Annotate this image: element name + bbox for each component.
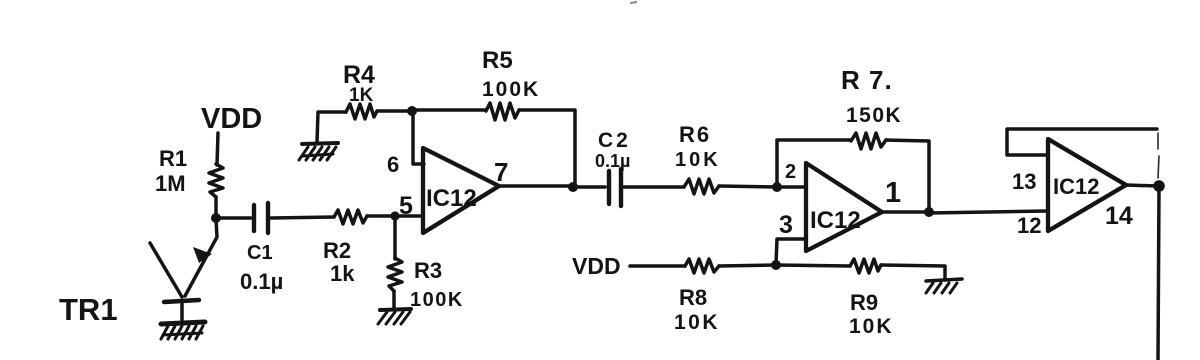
wire U2 output	[882, 210, 929, 214]
node A (R1/C1/TR1 junction)	[211, 213, 221, 223]
resistor R1	[209, 164, 223, 197]
svg-text:100K: 100K	[410, 289, 464, 311]
node E (pin2/R7 junction)	[772, 182, 782, 192]
label R8 value 10K	[674, 285, 720, 334]
wire faint feedback drop	[1158, 133, 1159, 178]
ground (below TR1)	[161, 322, 205, 339]
svg-text:13: 13	[1012, 169, 1036, 194]
pin label 6	[387, 152, 399, 177]
wire node H down to edge	[1158, 188, 1159, 360]
wire TR1 to ground	[180, 302, 184, 323]
pin label 12	[1017, 213, 1041, 238]
label C2 value 0.1u	[595, 129, 631, 171]
pin label 13	[1012, 169, 1036, 194]
resistor R9	[850, 259, 881, 273]
label IC12 (first)	[426, 185, 477, 212]
capacitor C1	[254, 203, 268, 233]
svg-text:R8: R8	[679, 285, 707, 310]
svg-text:VDD: VDD	[572, 253, 621, 279]
wire VDD rail to R8	[630, 264, 685, 268]
label R6 value 10K	[675, 122, 721, 171]
op-amp U2 (IC12 second section)	[806, 163, 882, 251]
label C1 value 0.1u	[240, 242, 283, 294]
resistor R2	[334, 210, 367, 224]
svg-text:R2: R2	[323, 238, 351, 263]
wire op-amp U1 output to node D	[499, 184, 573, 188]
wire R8 to node G	[719, 265, 776, 266]
svg-text:IC12: IC12	[1053, 174, 1099, 199]
svg-text:150K: 150K	[846, 104, 902, 127]
wire node G to R9	[776, 265, 850, 266]
wire R7 to output node F	[886, 140, 929, 211]
wire pin 3 hook to node G	[776, 239, 805, 264]
resistor R8	[685, 259, 719, 273]
label TR1	[59, 292, 118, 327]
node B (pin5/R3 junction)	[390, 211, 399, 220]
label R4 value 1K	[343, 61, 375, 106]
svg-text:R3: R3	[414, 258, 442, 283]
label VDD (left supply)	[201, 103, 262, 135]
pin label 7	[494, 157, 508, 187]
svg-text:6: 6	[387, 152, 399, 177]
wire C1 to R2	[271, 217, 334, 218]
svg-text:1k: 1k	[330, 261, 355, 286]
svg-text:2: 2	[785, 161, 796, 183]
wire pin 13 hook	[1007, 131, 1048, 155]
svg-text:R5: R5	[482, 47, 513, 74]
svg-text:12: 12	[1017, 213, 1041, 238]
node C (R4/R5/pin6 junction)	[407, 106, 417, 116]
label R2 value 1k	[323, 238, 355, 286]
wire R4 to node C	[377, 109, 410, 113]
op-amp U3 (IC12 third section)	[1048, 139, 1126, 231]
svg-text:10K: 10K	[674, 311, 720, 334]
label IC12 (third)	[1053, 174, 1099, 199]
svg-text:14: 14	[1105, 202, 1133, 230]
ground (R4 left)	[299, 143, 338, 160]
wire node E to op-amp pin 2	[777, 185, 806, 189]
capacitor C2	[609, 169, 621, 206]
svg-text:R6: R6	[679, 122, 711, 147]
wire C2 to R6	[624, 185, 684, 189]
label R1 value 1M	[155, 146, 187, 196]
ground (right of R9)	[926, 279, 962, 293]
transistor TR1 collector line with emitter arrow	[185, 219, 217, 296]
transistor TR1 base bar	[164, 300, 199, 302]
svg-text:R 7.: R 7.	[841, 65, 893, 95]
ground (below R3)	[378, 309, 411, 324]
resistor R3	[388, 258, 402, 291]
label R5 value 100K	[482, 47, 540, 101]
wire R2 to op-amp pin 5	[367, 214, 423, 218]
label IC12 (second)	[810, 207, 861, 234]
wire node E up to R7 rail	[775, 141, 779, 186]
svg-text:0.1µ: 0.1µ	[595, 151, 630, 171]
wire R3 to ground	[392, 291, 396, 310]
wire R4 left to ground corner	[317, 112, 346, 143]
wire node A to C1	[216, 216, 251, 220]
pin label 3	[779, 211, 793, 239]
wire node F to op-amp U3 pin 12	[929, 211, 1047, 213]
wire VDD stem down to R1	[217, 133, 218, 165]
resistor R6	[684, 179, 719, 194]
svg-text:1: 1	[885, 177, 901, 209]
svg-text:C1: C1	[247, 242, 273, 264]
label VDD (bias supply)	[572, 253, 621, 279]
wire R1 to node A	[214, 197, 218, 219]
resistor R4	[346, 104, 377, 119]
svg-text:0.1µ: 0.1µ	[240, 269, 283, 294]
svg-text:TR1: TR1	[59, 292, 118, 327]
wire node C down to pin 6	[413, 113, 424, 164]
resistor R5	[486, 103, 519, 120]
wire node C to R5	[414, 108, 486, 112]
label R7 value 150K	[841, 65, 902, 127]
pin label 5	[399, 192, 413, 220]
wire R9 to ground corner	[881, 265, 945, 280]
resistor R7	[851, 133, 886, 149]
svg-text:R1: R1	[159, 146, 187, 171]
node H (U3 output junction)	[1153, 180, 1165, 192]
wire rail to R7	[777, 138, 851, 142]
svg-text:10K: 10K	[675, 149, 721, 171]
label R3 value 100K	[410, 258, 464, 311]
wire R5 to output corner	[519, 110, 575, 185]
node F (U2 output junction)	[924, 207, 934, 217]
svg-text:VDD: VDD	[201, 103, 262, 135]
wire R6 to node E	[719, 186, 777, 187]
wire U3 feedback top rail	[1007, 127, 1157, 131]
svg-text:3: 3	[779, 211, 793, 239]
pin label 14	[1105, 202, 1133, 230]
svg-text:10K: 10K	[849, 315, 894, 338]
speck artifact	[630, 2, 637, 3]
label R9 value 10K	[849, 290, 894, 338]
pin label 1	[885, 177, 901, 209]
svg-text:1M: 1M	[155, 171, 186, 196]
node G (R8/R9/pin3 junction)	[771, 260, 781, 270]
wire node D to C2	[573, 185, 605, 189]
svg-text:C2: C2	[598, 129, 631, 152]
pin label 2	[785, 161, 796, 183]
transistor TR1 base lead	[150, 243, 182, 297]
svg-text:IC12: IC12	[426, 185, 477, 212]
node D (output/C2 junction)	[568, 182, 578, 192]
op-amp U1 (IC12 first section)	[423, 148, 499, 233]
svg-text:100K: 100K	[482, 78, 540, 101]
svg-text:7: 7	[494, 157, 508, 187]
svg-text:R9: R9	[850, 290, 878, 315]
wire U3 output to node H	[1126, 185, 1157, 186]
svg-text:IC12: IC12	[810, 207, 861, 234]
wire node B down to R3	[393, 216, 397, 259]
svg-text:5: 5	[399, 192, 413, 220]
svg-text:1K: 1K	[349, 85, 374, 106]
